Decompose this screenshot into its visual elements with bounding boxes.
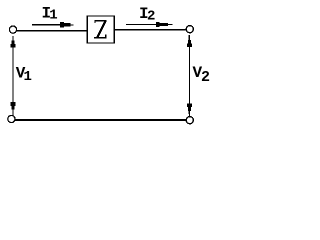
- svg-text:2: 2: [147, 9, 155, 25]
- svg-text:1: 1: [49, 8, 57, 24]
- svg-text:1: 1: [24, 69, 32, 85]
- svg-text:2: 2: [201, 69, 210, 86]
